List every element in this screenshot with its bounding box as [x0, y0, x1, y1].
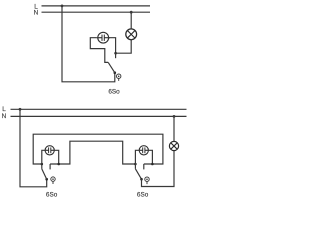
wire lamp to N	[130, 12, 132, 29]
switch S1 blade pivot dot	[45, 178, 48, 181]
lamp X2 circle	[169, 141, 178, 150]
lamp X1 circle	[126, 29, 137, 40]
switch S2 blade	[135, 169, 141, 179]
wire L line (bottom)	[11, 108, 187, 110]
wire S1 blade top stub	[41, 164, 43, 169]
switch S1 fixed contact	[49, 164, 51, 169]
glow lamp E3 electrodes	[142, 147, 144, 153]
wire blade-top stub to glow-lamp branch	[90, 38, 108, 63]
lamp X2 cross	[171, 143, 177, 149]
glow lamp E1 leads inside	[96, 37, 102, 39]
wire glow lamp right lead to fixed contact	[109, 38, 116, 54]
glow lamp E2 left lead	[42, 150, 45, 164]
switch Q1 fixed contact	[115, 53, 117, 58]
svg-text:N: N	[34, 10, 39, 17]
switch S2 fixed contact	[143, 164, 145, 169]
svg-text:6So: 6So	[137, 191, 149, 198]
svg-text:N: N	[2, 113, 7, 120]
switch Q1 blade (open, deflected left)	[108, 62, 115, 72]
svg-text:6So: 6So	[108, 89, 120, 96]
indicator on S2	[145, 177, 149, 181]
wire L feed to switch S1 pivot	[20, 109, 47, 187]
indicator lamp symbol on switch (circle+dot+stem)	[117, 74, 121, 78]
glow lamp E3 left lead	[135, 150, 139, 164]
svg-text:L: L	[2, 106, 6, 113]
junction dot fixed-contact / lamp feed	[114, 52, 117, 55]
junction dot on N (bottom)	[173, 115, 176, 118]
junction dot on L at x=20	[19, 108, 22, 111]
glow lamp E2 right lead	[54, 150, 59, 164]
wire S2 pivot to lamp X2	[142, 151, 175, 187]
switch Q1 blade pivot dot	[114, 71, 117, 74]
switch S2 blade pivot dot	[140, 178, 143, 181]
wire N line (bottom)	[11, 115, 187, 117]
wire lamp X2 to N	[173, 116, 175, 141]
junction S1 input node	[41, 163, 44, 166]
glow lamp E3 circle	[139, 146, 148, 155]
junction dot on L at x=62	[61, 5, 64, 8]
lamp X1 cross	[127, 31, 135, 39]
wire S1 fixed to S2 input	[50, 141, 135, 164]
wire L line (top)	[42, 5, 151, 7]
junction dot E2 right lead	[57, 163, 60, 166]
svg-text:6So: 6So	[46, 191, 58, 198]
glow lamp E2 leads	[45, 149, 49, 151]
glow lamp E3 leads	[139, 149, 143, 151]
junction dot on N	[130, 11, 133, 14]
wire S1 input from left riser and top link line	[33, 134, 163, 164]
wire N line (top)	[42, 11, 151, 13]
wire from junction to lamp	[116, 40, 132, 53]
junction dot E3 right lead	[151, 163, 154, 166]
switch S2 blade top stub	[134, 164, 136, 169]
glow lamp E3 right lead	[148, 150, 152, 164]
junction S2 input node	[134, 163, 137, 166]
glow lamp E1 electrodes	[101, 35, 103, 41]
glow lamp E2 circle	[45, 146, 54, 155]
glow lamp E2 electrodes	[48, 147, 50, 153]
glow lamp E1 (neon) circle	[98, 32, 109, 43]
switch S1 blade	[42, 169, 47, 179]
wire from L down and to switch pivot	[62, 6, 115, 82]
indicator on S1	[51, 177, 55, 181]
